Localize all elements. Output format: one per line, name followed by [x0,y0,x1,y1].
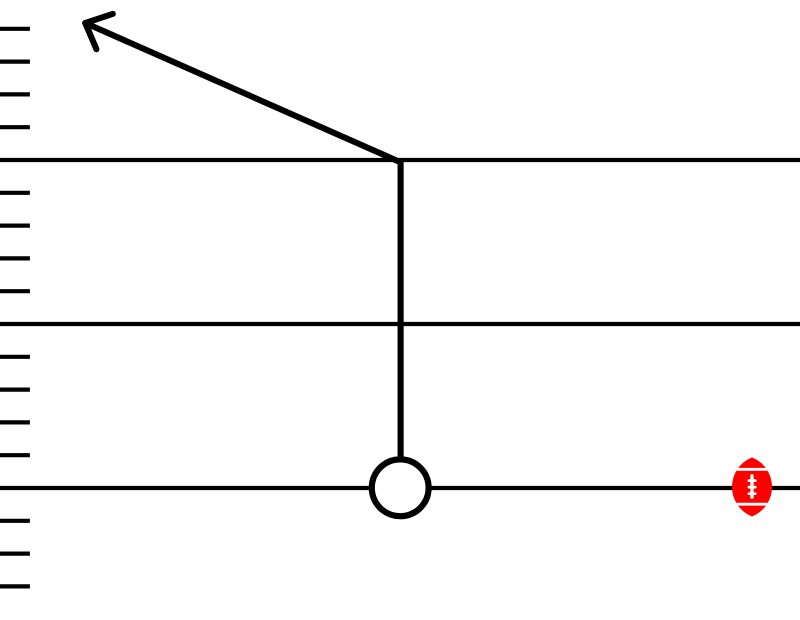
player circle O [372,459,429,516]
hash mark 4 [0,125,30,129]
arrowhead barb lower [85,23,96,49]
hash mark 15 [0,584,30,588]
football: body (red lens) [732,457,772,516]
football: white stripes [730,468,774,506]
hash mark 1 [0,27,30,31]
arrowhead barb upper [85,14,113,23]
football: laces [749,476,755,498]
hash mark 10 [0,388,30,392]
hash mark 12 [0,453,30,457]
yard line 1 [0,158,800,162]
hash mark 8 [0,289,30,293]
yard line 3 [0,486,800,490]
hash mark 6 [0,224,30,228]
hash mark 9 [0,355,30,359]
hash mark 14 [0,551,30,555]
hash mark 2 [0,59,30,63]
hash mark 11 [0,420,30,424]
hash mark 3 [0,92,30,96]
hash mark 7 [0,256,30,260]
hash mark 13 [0,519,30,523]
hash mark 5 [0,191,30,195]
route path: stem up from player then break to upper left [85,23,400,488]
yard line 2 [0,322,800,326]
